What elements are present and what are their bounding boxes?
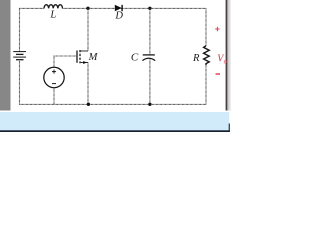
wire left lower [19, 60, 21, 105]
node dot top at switch [86, 7, 89, 10]
wire capacitor branch lower [149, 60, 151, 105]
battery [13, 52, 26, 60]
node dot top at capacitor [148, 7, 151, 10]
capacitor C [142, 55, 155, 61]
wire bottom [20, 103, 207, 105]
svg-text:M: M [88, 52, 99, 63]
label + output [215, 27, 220, 32]
svg-text:C: C [131, 51, 139, 63]
svg-text:R: R [192, 53, 200, 64]
node dot bottom at capacitor [148, 103, 151, 106]
wire switch branch upper [87, 8, 89, 51]
transistor M (MOSFET) [77, 50, 88, 64]
wire top right of inductor [63, 7, 207, 9]
svg-text:L: L [49, 9, 56, 20]
diode D [115, 5, 122, 12]
wire right lower [205, 65, 207, 105]
inductor L [44, 5, 63, 9]
wire capacitor branch upper [149, 8, 151, 55]
wire switch branch lower [87, 63, 89, 105]
wire right upper [205, 8, 207, 46]
svg-text:D: D [114, 11, 123, 22]
wire gate [54, 56, 77, 67]
resistor R [204, 46, 210, 65]
wire top left [20, 8, 45, 51]
source Vg (gate drive) [44, 67, 64, 87]
node dot bottom at switch [87, 103, 90, 106]
wire below source [53, 88, 55, 105]
left page-margin strip (decorative) [0, 0, 11, 111]
label minus output [216, 73, 221, 75]
